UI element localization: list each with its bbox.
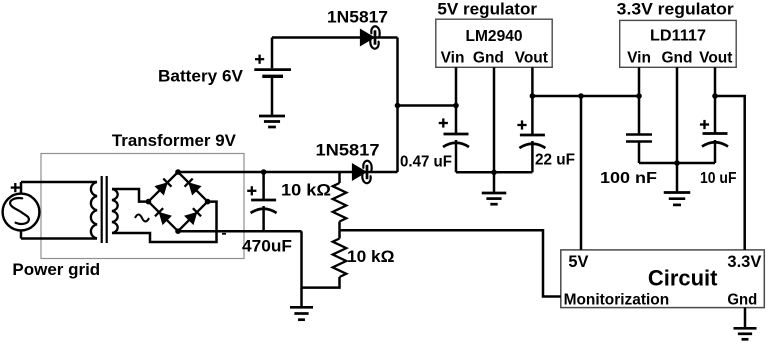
svg-text:10 kΩ: 10 kΩ — [281, 180, 331, 199]
svg-text:470uF: 470uF — [242, 236, 292, 255]
svg-text:Gnd: Gnd — [727, 291, 757, 308]
svg-text:1N5817: 1N5817 — [327, 8, 388, 27]
svg-text:LD1117: LD1117 — [650, 28, 706, 45]
svg-text:Power grid: Power grid — [12, 260, 100, 279]
svg-text:3.3V regulator: 3.3V regulator — [617, 0, 734, 18]
svg-text:3.3V: 3.3V — [727, 252, 762, 271]
svg-text:Vin: Vin — [627, 50, 651, 67]
svg-text:5V: 5V — [568, 252, 589, 271]
svg-text:Circuit: Circuit — [648, 265, 718, 290]
svg-text:5V regulator: 5V regulator — [437, 0, 537, 18]
svg-text:LM2940: LM2940 — [466, 28, 523, 45]
svg-text:Gnd: Gnd — [662, 50, 693, 67]
svg-text:Vin: Vin — [441, 50, 465, 67]
svg-text:Transformer 9V: Transformer 9V — [112, 131, 237, 150]
svg-text:10 kΩ: 10 kΩ — [347, 247, 395, 266]
svg-text:10 uF: 10 uF — [700, 170, 737, 187]
svg-text:0.47 uF: 0.47 uF — [400, 153, 452, 170]
svg-text:Battery 6V: Battery 6V — [158, 67, 244, 86]
svg-text:Vout: Vout — [699, 50, 732, 67]
svg-text:Gnd: Gnd — [473, 50, 504, 67]
svg-text:100 nF: 100 nF — [600, 170, 657, 187]
svg-text:Monitorization: Monitorization — [564, 291, 670, 308]
svg-text:Vout: Vout — [515, 50, 548, 67]
svg-text:1N5817: 1N5817 — [316, 140, 380, 159]
svg-text:22 uF: 22 uF — [535, 152, 575, 169]
